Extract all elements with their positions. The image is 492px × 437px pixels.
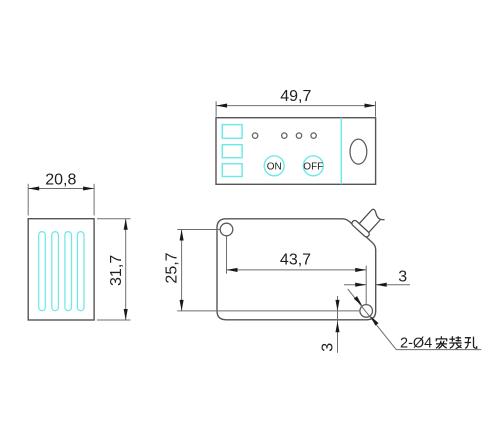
dimension 3 (horizontal) line left part [344, 284, 366, 286]
vent slot 1 [39, 232, 46, 311]
dimension 20,8 extension line left [27, 184, 29, 216]
dimension 49,7 extension line right [375, 101, 377, 116]
indicator LED 1 [252, 133, 257, 138]
OFF button circle [303, 156, 323, 176]
side view body outline with chamfered corner [217, 219, 376, 320]
dimension 25,7 / 3 shared extension line bottom (hole level) [177, 310, 360, 312]
dimension 49,7 arrow right [365, 104, 376, 108]
leader underline [396, 349, 481, 351]
dimension 43,7 arrow right [355, 268, 366, 272]
svg-text:3: 3 [398, 269, 407, 286]
dimension 20,8 line [28, 188, 94, 190]
leader line through bottom-right hole [348, 289, 397, 350]
dimension 43,7 line [227, 269, 367, 271]
mounting hole top-left [220, 223, 233, 236]
label 装 glyph [449, 336, 461, 348]
dimension 20,8 arrow right [83, 186, 94, 190]
svg-text:2-Ø4: 2-Ø4 [400, 336, 432, 352]
dimension 31,7 extension line bottom [97, 319, 131, 321]
svg-text:ON: ON [267, 161, 282, 172]
label 孔 glyph [465, 337, 477, 349]
dimension 49,7 arrow left [216, 104, 227, 108]
indicator LED 2 [282, 133, 287, 138]
cable side left [359, 211, 371, 224]
dimension 43,7 arrow left [227, 268, 238, 272]
dimension 3 (vertical) line [337, 296, 339, 353]
svg-text:49,7: 49,7 [280, 88, 311, 105]
dimension 49,7 extension line left [215, 101, 217, 116]
dimension 43,7 extension line left (from top hole) [226, 237, 228, 274]
display window 1 (cyan) [222, 125, 242, 139]
svg-text:OFF: OFF [303, 161, 323, 172]
lens ellipse [350, 139, 367, 164]
dimension 25,7 arrow top [180, 230, 184, 241]
dimension 20,8 arrow left [28, 186, 39, 190]
label 安 glyph [436, 336, 448, 348]
cable gland on chamfer (rotated group) [351, 207, 382, 238]
dimension 25,7 arrow bottom [180, 300, 184, 311]
vent slot 4 [77, 232, 84, 311]
dimension 25,7 line [181, 230, 183, 311]
mounting hole bottom-right [360, 305, 373, 318]
cable side right [369, 220, 381, 233]
leader arrowhead upper (pointing at hole) [354, 296, 364, 307]
vent slot 2 [52, 232, 59, 311]
dimension 3 (horizontal) line right part [376, 284, 410, 286]
display window 3 (cyan) [222, 164, 242, 177]
dimension 49,7 line [216, 105, 375, 107]
dimension 20,8 extension line right [93, 184, 95, 216]
dimension 31,7 line [125, 219, 127, 320]
svg-text:20,8: 20,8 [45, 171, 76, 188]
end view body outline [28, 219, 94, 320]
svg-text:31,7: 31,7 [108, 255, 125, 286]
ON button circle [264, 156, 284, 176]
dimension 3 (horizontal) arrow right (tip at body edge, pointing left) [376, 283, 387, 287]
dimension 31,7 extension line top [97, 218, 131, 220]
top view body outline [216, 118, 376, 185]
cyan divider line [340, 118, 342, 185]
dimension 3 (horizontal) arrow left (tip at hole axis, pointing right) [355, 283, 366, 287]
svg-text:25,7: 25,7 [163, 252, 180, 283]
svg-text:43,7: 43,7 [280, 251, 311, 268]
cable break squiggle [371, 209, 385, 219]
dimension 3 (vertical) arrow lower (tip at bottom edge, pointing up) [335, 321, 339, 332]
dimension 43,7 extension line right (from bottom hole) [365, 266, 367, 305]
svg-text:3: 3 [320, 343, 337, 352]
dimension 31,7 arrow top [124, 219, 128, 230]
indicator LED 3 [296, 133, 301, 138]
vent slot 3 [65, 232, 72, 311]
dimension 25,7 extension line top (from hole) [177, 229, 219, 231]
dimension 3 (vertical) arrow upper (tip at hole level, pointing down) [335, 300, 339, 311]
display window 2 (cyan) [222, 145, 242, 158]
dimension 31,7 arrow bottom [124, 309, 128, 320]
leader arrowhead lower (pointing at hole) [369, 315, 379, 326]
indicator LED 4 [311, 133, 316, 138]
